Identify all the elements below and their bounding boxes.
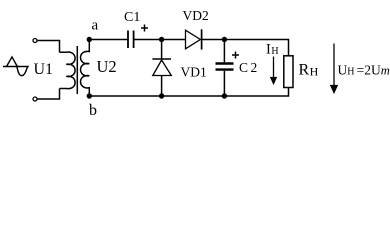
node junction VD1 top (159, 37, 164, 42)
svg-text:RН: RН (299, 62, 319, 79)
svg-text:a: a (92, 18, 99, 34)
diode VD2 (186, 29, 202, 49)
wire C2 branch lower (223, 71, 225, 96)
wire VD1 branch upper (161, 40, 163, 60)
svg-text:VD1: VD1 (181, 65, 207, 80)
wire bottom-left terminal to primary (37, 89, 59, 100)
polarity plus of C2 (232, 52, 239, 59)
current arrow IH (271, 57, 276, 84)
svg-text:U2: U2 (97, 57, 117, 76)
wire C2 branch upper (223, 40, 225, 63)
ac source U1 symbol (3, 57, 29, 76)
capacitor C1 (128, 31, 134, 49)
polarity plus of C1 (141, 25, 148, 32)
svg-text:U1: U1 (34, 61, 54, 78)
transformer core (76, 46, 78, 94)
svg-text:VD2: VD2 (183, 8, 209, 23)
diode VD1 (152, 59, 171, 76)
node junction VD1 bottom (159, 93, 164, 98)
wire C1 to VD2 (135, 39, 186, 41)
node b (87, 93, 92, 98)
wire VD1 branch lower (161, 76, 163, 97)
node junction C2 top (222, 37, 227, 42)
transformer T1 primary winding (60, 52, 76, 89)
wire VD2 to right corner and down to resistor (202, 40, 289, 56)
svg-text:C1: C1 (124, 10, 140, 25)
transformer T1 secondary winding (81, 40, 90, 97)
terminal bottom-left (33, 97, 37, 101)
node junction C2 bottom (222, 93, 227, 98)
capacitor C2 (216, 64, 234, 70)
svg-text:UН=2Um: UН=2Um (338, 63, 390, 78)
wire resistor bottom to rail (89, 88, 288, 97)
wire top rail from a to C1 (89, 39, 127, 41)
svg-text:b: b (89, 102, 97, 119)
voltage arrow UH (331, 44, 337, 93)
wire top-left terminal to primary (37, 41, 59, 53)
node a (87, 37, 92, 42)
terminal top-left (33, 39, 37, 43)
resistor RH (284, 56, 293, 88)
